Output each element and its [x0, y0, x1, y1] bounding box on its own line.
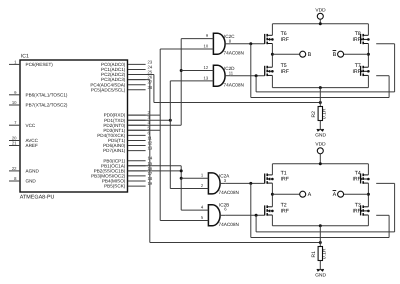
svg-text:10: 10: [204, 43, 209, 48]
AND gate IC2D 74AC08N: [213, 65, 225, 86]
AND gate IC2B 74AC08N: [208, 205, 220, 226]
svg-text:B: B: [308, 52, 312, 58]
resistor R1 0.1R: [319, 226, 321, 247]
IC1 pin 17 PB3(MOSI/OC2): [128, 175, 146, 177]
svg-text:IC1: IC1: [21, 54, 29, 60]
svg-text:R1: R1: [311, 251, 317, 258]
svg-text:0.1R: 0.1R: [322, 248, 328, 259]
ground symbol GND lower bridge: [317, 269, 320, 271]
junction node B: [367, 53, 370, 56]
wire PD0 pin2 vertical bus to gate inputs 10 and 5: [128, 114, 160, 116]
svg-text:PD7(AIN1): PD7(AIN1): [103, 148, 126, 153]
wire to gate input 5: [160, 219, 208, 221]
IC1 pin 14 PB0(ICP1): [128, 160, 146, 162]
svg-text:T5: T5: [281, 63, 287, 69]
node A terminal: [344, 193, 369, 195]
wire drain to top rail right leg: [367, 24, 369, 36]
svg-text:IRF: IRF: [281, 209, 289, 215]
IC1 pin 18 PB4(MISO): [128, 180, 146, 182]
wire source to bottom rail right leg: [367, 75, 369, 87]
junction PD1 bus: [169, 119, 172, 122]
svg-text:IRF: IRF: [352, 37, 360, 43]
svg-text:ATMEGA8-PU: ATMEGA8-PU: [20, 194, 55, 200]
transistor T5 IRF: [230, 75, 265, 77]
transistor T4 IRF: [360, 174, 362, 184]
wire PB1 pin15 to gate inputs 1 and 4: [128, 165, 181, 167]
wire bottom rail: [272, 225, 368, 227]
IC1 pin 1 PC6(RESET): [9, 63, 20, 65]
IC1 pin 16 PB2(SS/OC1B): [128, 170, 146, 172]
junction R1 sense tap: [319, 241, 322, 244]
IC1 pin 3 PD1(TXD): [128, 119, 146, 121]
junction node A: [271, 193, 274, 196]
wire source to drain left leg: [271, 44, 273, 68]
svg-text:PB6(XTAL1/TOSC1): PB6(XTAL1/TOSC1): [26, 92, 68, 97]
svg-text:A: A: [308, 192, 312, 198]
svg-text:B: B: [333, 52, 337, 58]
AND gate IC2A 74AC08N: [208, 173, 220, 194]
IC1 pin 12 PD6(AIN0): [128, 145, 146, 147]
wire PD2 pin4 to gate inputs 9 and 12: [128, 124, 181, 126]
IC1 pin 8 GND: [9, 180, 20, 182]
transistor T6 IRF: [230, 43, 265, 45]
wire drain to top rail: [271, 164, 273, 175]
svg-text:22: 22: [12, 166, 17, 171]
IC1 pin 24 PC1(ADC1): [128, 69, 146, 71]
svg-text:T8: T8: [355, 31, 361, 37]
junction R2 sense tap: [319, 101, 322, 104]
wire source to bottom rail: [271, 215, 273, 226]
svg-text:GND: GND: [26, 179, 37, 184]
AND gate IC2C 74AC08N: [213, 33, 225, 54]
svg-text:VDD: VDD: [315, 7, 326, 13]
IC1 pin 22 AGND: [9, 170, 20, 172]
transistor T3 IRF: [360, 205, 362, 215]
IC1 pin 2 PD0(RXD): [128, 114, 146, 116]
svg-text:T3: T3: [355, 202, 361, 208]
junction rail to R2: [319, 86, 322, 89]
svg-text:R2: R2: [311, 111, 317, 118]
svg-text:VDD: VDD: [315, 142, 326, 148]
wire to gate input 13: [170, 80, 213, 82]
wire PC3 pin26 to current sense of R1: [128, 79, 150, 81]
svg-text:11: 11: [229, 71, 234, 76]
svg-text:74AC08N: 74AC08N: [224, 51, 244, 56]
svg-text:13: 13: [204, 75, 209, 80]
junction gate input 1: [180, 177, 183, 180]
svg-text:21: 21: [12, 141, 17, 146]
wire lower-left gate output wrap to T8: [255, 74, 258, 77]
svg-text:10: 10: [12, 100, 17, 105]
ground symbol GND upper bridge: [317, 129, 320, 131]
svg-text:IRF: IRF: [352, 69, 360, 75]
svg-text:AREF: AREF: [26, 143, 38, 148]
IC1 pin 15 PB1(OC1A): [128, 165, 146, 167]
svg-text:PB7(XTAL2/TOSC2): PB7(XTAL2/TOSC2): [26, 103, 68, 108]
node B terminal: [272, 53, 299, 55]
resistor R2 0.1R: [319, 88, 321, 107]
svg-text:IRF: IRF: [281, 177, 289, 183]
IC1 pin 13 PD7(AIN1): [128, 150, 146, 152]
svg-text:IRF: IRF: [352, 209, 360, 215]
svg-text:74AC08N: 74AC08N: [219, 222, 239, 227]
node B terminal: [344, 53, 369, 55]
svg-text:T1: T1: [281, 171, 287, 177]
svg-text:GND: GND: [315, 132, 326, 138]
IC1 pin 27 PC4(ADC4/SDA): [128, 84, 146, 86]
wire PD3 pin5 to vertical bus: [128, 129, 160, 131]
IC1 pin 23 PC0(ADC0): [128, 63, 146, 65]
svg-text:IC2D: IC2D: [224, 66, 235, 71]
wire source to bottom rail: [271, 75, 273, 87]
svg-text:T7: T7: [355, 63, 361, 69]
IC1 pin 9 PB6(XTAL1/TOSC1): [9, 94, 20, 96]
svg-text:IRF: IRF: [352, 177, 360, 183]
svg-text:74AC08N: 74AC08N: [219, 190, 239, 195]
wire to gate input 2: [170, 188, 208, 190]
IC1 pin 7 VCC: [9, 124, 20, 126]
wire bottom rail: [272, 87, 368, 89]
svg-text:VCC: VCC: [26, 123, 36, 128]
IC1 pin 6 PD4(T0/XCK): [128, 134, 146, 136]
svg-text:PC5(ADC5/SCL): PC5(ADC5/SCL): [91, 87, 126, 92]
microcontroller IC1 ATMEGA8-PU body: [20, 60, 128, 192]
wire to gate input 4: [181, 209, 208, 211]
IC1 pin 26 PC3(ADC3): [128, 79, 146, 81]
wire PC2 pin25 to current sense of R2: [128, 74, 154, 76]
svg-text:T2: T2: [281, 202, 287, 208]
wire lower-left gate output wrap to T4: [255, 214, 258, 217]
svg-text:IC2B: IC2B: [219, 202, 229, 207]
wire PD1 pin3 to gate inputs 13 and 2: [128, 119, 170, 121]
junction node B: [271, 53, 274, 56]
junction node A: [367, 193, 370, 196]
transistor T1 IRF: [225, 182, 265, 184]
transistor T7 IRF: [360, 66, 362, 76]
IC1 pin 28 PC5(ADC5/SCL): [128, 89, 146, 91]
svg-text:PB5(SCK): PB5(SCK): [104, 184, 126, 189]
IC1 pin 5 PD3(INT1): [128, 129, 146, 131]
wire drain to top rail: [271, 24, 273, 36]
wire to gate input 9: [181, 38, 213, 40]
wire source to drain left leg: [271, 183, 273, 207]
svg-text:PC6(RESET): PC6(RESET): [26, 62, 54, 67]
svg-text:AGND: AGND: [26, 169, 40, 174]
svg-text:T4: T4: [355, 171, 361, 177]
svg-text:IC2C: IC2C: [224, 34, 235, 39]
junction rail to R1: [319, 224, 322, 227]
wire top rail: [272, 163, 368, 165]
IC1 pin 19 PB5(SCK): [128, 185, 146, 187]
junction VDD to rail: [319, 162, 322, 165]
transistor T2 IRF: [225, 214, 265, 216]
svg-text:0.1R: 0.1R: [322, 108, 328, 119]
IC1 pin 25 PC2(ADC2): [128, 74, 146, 76]
svg-text:IRF: IRF: [281, 37, 289, 43]
svg-text:74AC08N: 74AC08N: [224, 83, 244, 88]
svg-text:12: 12: [204, 65, 209, 70]
wire PB2 pin16 joining bus: [128, 170, 181, 172]
wire upper-left gate output wrap to T7: [249, 42, 252, 45]
svg-text:A: A: [333, 192, 337, 198]
wire source to bottom rail right leg: [367, 215, 369, 226]
svg-text:IC2A: IC2A: [219, 174, 230, 179]
IC1 pin 4 PD2(INT0): [128, 124, 146, 126]
svg-text:T6: T6: [281, 31, 287, 37]
IC1 pin 11 PD5(T1): [128, 140, 146, 142]
wire top rail: [272, 23, 368, 25]
svg-text:GND: GND: [315, 272, 326, 278]
wire source to drain right leg: [367, 183, 369, 207]
wire source to drain right leg: [367, 44, 369, 68]
IC1 pin 10 PB7(XTAL2/TOSC2): [9, 104, 20, 106]
junction VDD to rail: [319, 22, 322, 25]
junction PB bus: [180, 169, 183, 172]
wire drain to top rail right leg: [367, 164, 369, 175]
IC1 pin 21 AREF: [9, 145, 20, 147]
transistor T8 IRF: [360, 34, 362, 44]
svg-text:IRF: IRF: [281, 69, 289, 75]
junction gate input 12: [180, 69, 183, 72]
wire upper-left gate output wrap to T3: [249, 182, 252, 185]
node A terminal: [272, 193, 299, 195]
IC1 pin 20 AVCC: [9, 140, 20, 142]
wire to gate input 10: [160, 48, 213, 50]
